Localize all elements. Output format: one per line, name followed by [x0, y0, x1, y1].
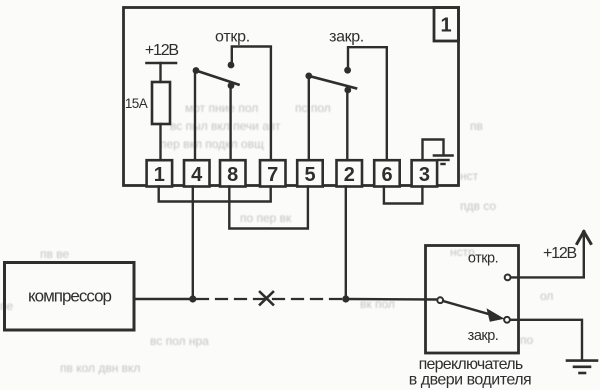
svg-text:7: 7	[267, 164, 278, 186]
node open contact of door switch	[505, 275, 511, 281]
node close contact of door switch	[504, 317, 510, 323]
wire link terminals 1-7	[159, 187, 271, 202]
+12V arrow	[577, 232, 591, 244]
svg-text:по пер вк: по пер вк	[240, 211, 292, 225]
wire close pivot to terminal 5	[308, 76, 310, 160]
wire fuse to terminal 1	[159, 124, 161, 160]
svg-text:по: по	[520, 333, 533, 347]
svg-text:закр.: закр.	[329, 29, 364, 46]
wire compressor to junction A	[134, 298, 193, 300]
ground (door switch)	[567, 361, 597, 373]
wire terminal 2 down to junction B	[345, 187, 347, 300]
unit designator box "1"	[434, 8, 459, 42]
svg-text:4: 4	[191, 164, 203, 186]
svg-text:3: 3	[419, 164, 430, 186]
svg-text:в двери водителя: в двери водителя	[409, 372, 531, 389]
svg-text:15А: 15А	[125, 96, 148, 111]
node close fixed contact	[344, 67, 351, 74]
node open fixed contact	[228, 62, 235, 69]
wire rail to fuse	[159, 63, 161, 82]
svg-text:8: 8	[227, 164, 238, 186]
terminal 6	[374, 160, 400, 186]
wire pivot to terminal 4	[194, 71, 196, 161]
node common contact	[437, 297, 443, 303]
wire open contact to +12V	[511, 233, 584, 277]
terminal 4	[184, 160, 210, 186]
svg-text:ол: ол	[540, 289, 553, 303]
svg-text:5: 5	[304, 164, 315, 186]
bleed-through background marks (not labeled content)	[0, 101, 553, 375]
wire open-contact bracket to terminal 7	[232, 47, 271, 161]
terminal 3	[412, 160, 438, 186]
terminal 2	[337, 160, 363, 186]
break mark X	[260, 292, 273, 305]
svg-text:вс пол нра: вс пол нра	[150, 334, 209, 348]
svg-text:1: 1	[154, 164, 165, 186]
svg-text:пв: пв	[470, 119, 483, 133]
svg-text:пв кол двн вкл: пв кол двн вкл	[60, 361, 140, 375]
wire terminal 3 to internal ground	[423, 140, 444, 161]
svg-text:пв ве: пв ве	[40, 247, 69, 261]
compressor box	[5, 263, 135, 331]
svg-text:откр.: откр.	[468, 251, 498, 267]
svg-text:2: 2	[344, 164, 355, 186]
svg-text:откр.: откр.	[215, 29, 250, 46]
terminal 1	[147, 160, 173, 186]
ground (internal)	[434, 156, 453, 165]
svg-text:компрессор: компрессор	[28, 287, 112, 306]
switch arm (open relay)	[196, 71, 239, 85]
node open moving contact	[228, 82, 235, 89]
junction A	[189, 295, 196, 302]
+12V rail bar	[147, 62, 177, 65]
svg-text:переключатель: переключатель	[419, 356, 523, 373]
door switch box	[426, 246, 519, 354]
fuse F1 15A	[152, 82, 170, 124]
wire junction B to door switch	[346, 298, 437, 301]
switch arm (close relay)	[309, 76, 356, 88]
switch arm with arrow	[443, 301, 504, 322]
wire link terminals 6-3	[384, 187, 423, 204]
node close moving contact	[344, 87, 351, 94]
svg-text:+12В: +12В	[543, 245, 577, 262]
terminal 8	[220, 160, 246, 186]
svg-text:нст: нст	[460, 169, 479, 183]
svg-text:6: 6	[381, 164, 392, 186]
wire close moving contact to terminal 2	[346, 90, 348, 160]
node close pivot	[305, 73, 312, 80]
svg-text:пе: пе	[0, 299, 13, 313]
wire close-contact bracket to terminal 6	[348, 47, 387, 160]
terminal 5	[297, 160, 323, 186]
wire terminal 4 down to junction A	[192, 187, 194, 300]
junction B	[342, 295, 349, 302]
wire link terminals 8-5	[229, 187, 308, 229]
svg-text:+12В: +12В	[145, 42, 179, 59]
wire moving contact to terminal 8	[229, 86, 231, 160]
svg-text:вс пыл вкл печи авт: вс пыл вкл печи авт	[170, 119, 281, 133]
svg-text:1: 1	[440, 15, 451, 37]
wire close contact to ground	[510, 320, 582, 360]
label переключатель в двери водителя	[409, 356, 531, 389]
svg-text:пер вкл подкл овщ: пер вкл подкл овщ	[160, 137, 264, 151]
svg-text:пдв со: пдв со	[460, 199, 496, 213]
svg-text:закр.: закр.	[468, 328, 499, 344]
dashed wire (to be installed)	[197, 298, 342, 300]
node open pivot	[193, 67, 200, 74]
terminal 7	[260, 160, 286, 186]
svg-text:пс пол: пс пол	[295, 101, 331, 115]
control unit box 1	[124, 8, 459, 186]
